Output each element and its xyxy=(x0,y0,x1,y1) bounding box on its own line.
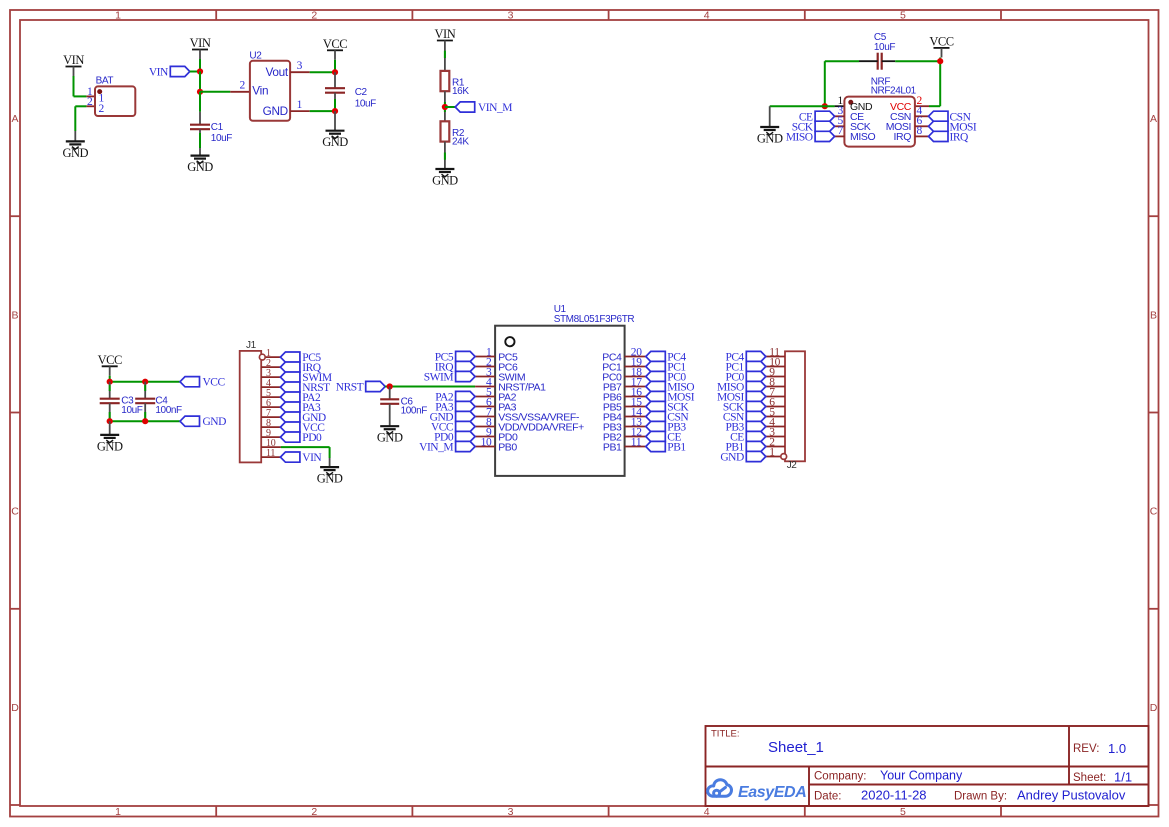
svg-text:1: 1 xyxy=(115,806,121,818)
svg-text:VIN_M: VIN_M xyxy=(419,442,453,454)
svg-text:Company:: Company: xyxy=(814,771,866,783)
svg-text:GND: GND xyxy=(432,173,458,187)
svg-text:Sheet:: Sheet: xyxy=(1073,772,1106,784)
svg-text:J2: J2 xyxy=(787,460,798,471)
svg-text:1: 1 xyxy=(769,447,775,459)
svg-text:EasyEDA: EasyEDA xyxy=(738,784,806,801)
svg-text:Drawn By:: Drawn By: xyxy=(954,791,1007,803)
svg-text:GND: GND xyxy=(317,472,343,486)
svg-text:10uF: 10uF xyxy=(874,42,895,53)
svg-text:SWIM: SWIM xyxy=(424,372,454,384)
svg-text:C1: C1 xyxy=(211,122,224,133)
svg-text:4: 4 xyxy=(704,806,710,818)
svg-text:100nF: 100nF xyxy=(155,405,182,416)
svg-text:STM8L051F3P6TR: STM8L051F3P6TR xyxy=(554,314,635,325)
svg-text:Your Company: Your Company xyxy=(880,769,963,783)
svg-text:1/1: 1/1 xyxy=(1114,770,1132,785)
svg-text:Andrey Pustovalov: Andrey Pustovalov xyxy=(1017,788,1126,803)
svg-text:MISO: MISO xyxy=(786,131,813,143)
svg-text:GND: GND xyxy=(377,431,403,445)
svg-text:VIN: VIN xyxy=(63,53,84,67)
svg-text:BAT: BAT xyxy=(96,76,114,87)
svg-text:Sheet_1: Sheet_1 xyxy=(768,739,824,756)
svg-text:Date:: Date: xyxy=(814,791,842,803)
svg-text:IRQ: IRQ xyxy=(894,131,912,143)
svg-text:2: 2 xyxy=(311,806,317,818)
svg-text:A: A xyxy=(11,113,18,125)
svg-text:8: 8 xyxy=(917,125,923,137)
svg-text:PB1: PB1 xyxy=(667,442,686,454)
svg-text:C2: C2 xyxy=(355,87,368,98)
svg-text:10uF: 10uF xyxy=(355,98,376,109)
svg-text:5: 5 xyxy=(900,806,906,818)
svg-text:16K: 16K xyxy=(452,86,469,97)
svg-text:NRST: NRST xyxy=(336,382,364,394)
svg-text:7: 7 xyxy=(838,125,844,137)
svg-text:VCC: VCC xyxy=(323,37,347,51)
svg-text:PB0: PB0 xyxy=(498,441,517,453)
svg-text:B: B xyxy=(11,309,18,321)
svg-text:2020-11-28: 2020-11-28 xyxy=(861,788,927,803)
svg-text:3: 3 xyxy=(297,60,303,72)
svg-text:REV:: REV: xyxy=(1073,743,1099,755)
svg-text:C: C xyxy=(1150,506,1158,518)
svg-text:Vout: Vout xyxy=(265,65,288,79)
svg-text:GND: GND xyxy=(63,146,89,160)
svg-text:11: 11 xyxy=(266,448,275,459)
svg-text:GND: GND xyxy=(757,131,783,145)
svg-text:10uF: 10uF xyxy=(121,405,142,416)
svg-text:C: C xyxy=(11,506,19,518)
svg-text:VCC: VCC xyxy=(98,353,122,367)
svg-text:VIN: VIN xyxy=(149,67,169,79)
svg-text:GND: GND xyxy=(97,439,123,453)
svg-text:GND: GND xyxy=(720,452,744,464)
svg-text:D: D xyxy=(1150,702,1158,714)
svg-text:PB1: PB1 xyxy=(603,441,622,453)
svg-text:GND: GND xyxy=(263,104,288,118)
svg-text:NRF24L01: NRF24L01 xyxy=(871,86,917,97)
svg-text:VIN: VIN xyxy=(302,452,322,464)
svg-text:2: 2 xyxy=(240,80,246,92)
svg-text:5: 5 xyxy=(900,9,906,21)
svg-text:B: B xyxy=(1150,309,1157,321)
svg-text:1.0: 1.0 xyxy=(1108,741,1126,756)
svg-text:VCC: VCC xyxy=(203,377,226,389)
svg-text:VIN: VIN xyxy=(435,27,456,41)
svg-text:2: 2 xyxy=(99,103,105,115)
svg-text:J1: J1 xyxy=(246,340,257,351)
svg-text:Vin: Vin xyxy=(252,83,268,97)
svg-text:D: D xyxy=(11,702,19,714)
svg-text:TITLE:: TITLE: xyxy=(711,729,740,740)
svg-text:GND: GND xyxy=(203,416,227,428)
svg-text:4: 4 xyxy=(704,9,710,21)
svg-text:U2: U2 xyxy=(249,51,262,62)
svg-text:24K: 24K xyxy=(452,137,469,148)
svg-text:A: A xyxy=(1150,113,1157,125)
svg-text:PD0: PD0 xyxy=(302,432,322,444)
svg-text:VIN: VIN xyxy=(190,36,211,50)
svg-text:11: 11 xyxy=(631,437,642,449)
svg-text:1: 1 xyxy=(297,99,303,111)
svg-text:100nF: 100nF xyxy=(401,405,428,416)
svg-text:3: 3 xyxy=(508,806,514,818)
svg-text:2: 2 xyxy=(311,9,317,21)
svg-text:1: 1 xyxy=(115,9,121,21)
svg-text:10uF: 10uF xyxy=(211,133,232,144)
svg-text:VIN_M: VIN_M xyxy=(478,102,512,114)
svg-text:VCC: VCC xyxy=(929,34,953,48)
svg-text:MISO: MISO xyxy=(850,131,875,143)
svg-text:IRQ: IRQ xyxy=(950,131,970,143)
svg-text:GND: GND xyxy=(187,160,213,174)
svg-text:3: 3 xyxy=(508,9,514,21)
svg-text:2: 2 xyxy=(87,96,93,108)
svg-text:10: 10 xyxy=(481,437,492,449)
svg-text:GND: GND xyxy=(322,135,348,149)
